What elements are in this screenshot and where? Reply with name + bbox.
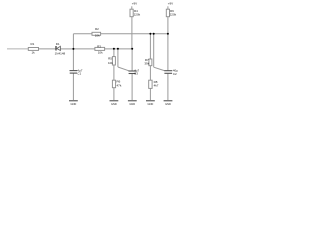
svg-text:D1: D1 (56, 42, 60, 46)
svg-text:C2: C2 (173, 72, 177, 76)
ground under R6 (110, 101, 119, 106)
wire node A to R3 (73, 48, 95, 50)
svg-text:+9V: +9V (168, 2, 173, 6)
wire upper rail right segment (101, 33, 168, 35)
svg-text:GND: GND (129, 102, 135, 106)
svg-text:1N4148: 1N4148 (55, 52, 66, 56)
capacitor C3 (128, 71, 136, 74)
wire C3 to ground (131, 73, 133, 100)
svg-text:1k: 1k (32, 50, 36, 54)
wire node B down to C3 (131, 49, 133, 71)
svg-text:R2: R2 (95, 27, 99, 31)
wire R6 to ground (113, 88, 115, 101)
svg-text:GND: GND (148, 102, 154, 106)
svg-text:R5: R5 (108, 57, 112, 61)
ground under C2 (164, 101, 173, 106)
svg-text:C3: C3 (134, 72, 138, 76)
resistor R5 (112, 57, 115, 65)
wire lower rail dot down to R5 (113, 49, 115, 57)
wire C1 to ground (72, 73, 74, 100)
svg-text:10k: 10k (95, 34, 100, 38)
wire riser node A to upper rail (72, 34, 74, 49)
labels (scaled tiny text) (31, 2, 179, 88)
capacitor C1 (70, 71, 78, 74)
wire R4 top supply stub (131, 6, 133, 9)
svg-text:4k7: 4k7 (154, 84, 159, 88)
svg-text:220k: 220k (170, 12, 177, 16)
wire R5 to R6 (113, 65, 115, 80)
ground under C1 (69, 101, 78, 106)
svg-text:GND: GND (165, 102, 171, 106)
resistor R8 (149, 80, 152, 88)
svg-text:R1: R1 (31, 42, 35, 46)
wire lower rail dot2 down (117, 49, 119, 67)
node B junction (131, 48, 133, 50)
wire R9 top supply stub (167, 6, 169, 9)
wire upper rail dot down to R7 (149, 34, 151, 59)
wire R1 to D1 (39, 48, 56, 50)
wire input left (7, 48, 28, 50)
svg-text:10k: 10k (108, 61, 113, 65)
junction upper rail end (167, 33, 169, 35)
diode D1 (56, 46, 60, 51)
wire R3 to node B (lower rail) (105, 48, 133, 50)
node A junction (72, 48, 74, 50)
svg-text:39k: 39k (144, 62, 149, 66)
resistor R6 (112, 80, 115, 88)
svg-text:C1: C1 (77, 72, 81, 76)
wire R8 to ground (149, 88, 151, 100)
junction upper rail dot 2 (153, 33, 155, 35)
wire R9 bottom lead to upper rail end (167, 17, 169, 34)
svg-text:47k: 47k (117, 83, 122, 87)
svg-text:220k: 220k (134, 12, 141, 16)
ground under R8 (146, 101, 155, 106)
resistor R3 (95, 47, 105, 50)
resistor R4 (130, 9, 133, 17)
wire D1 to node A (61, 48, 74, 50)
wire upper rail dot2 down (153, 34, 155, 67)
resistor R1 (28, 48, 38, 51)
capacitor C2 (164, 71, 172, 74)
wire rail end down to C2 (167, 34, 169, 71)
wire R4 bottom lead down through rail to node B (131, 17, 133, 49)
wire C1 lead from node A (72, 49, 74, 71)
wire diagonal to C3 top plate (118, 67, 129, 71)
resistor R9 (166, 9, 169, 17)
resistor R7 (149, 59, 152, 66)
resistor R2 (92, 32, 101, 35)
junction upper rail dot 1 (149, 33, 151, 35)
svg-text:GND: GND (111, 102, 117, 106)
svg-text:R3: R3 (97, 44, 101, 48)
ground under C3 (128, 101, 137, 106)
junction lower rail dot 1 (113, 48, 115, 50)
wire diagonal to C2 top plate (154, 67, 165, 70)
svg-text:GND: GND (71, 102, 77, 106)
wire upper rail left segment (73, 33, 92, 35)
svg-text:10k: 10k (98, 51, 103, 55)
wire R7 to R8 (149, 66, 151, 81)
junction lower rail dot 2 (117, 48, 119, 50)
svg-text:+9V: +9V (132, 2, 137, 6)
wire C2 to ground (167, 73, 169, 100)
